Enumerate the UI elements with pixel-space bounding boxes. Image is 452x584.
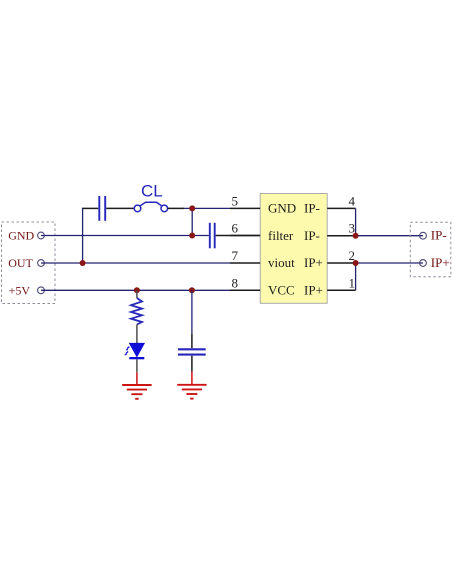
svg-text:7: 7 bbox=[232, 248, 239, 263]
pin circle IP- bbox=[420, 232, 427, 239]
label OUT bbox=[8, 256, 33, 270]
ground left bbox=[122, 372, 151, 399]
pin number 8 bbox=[232, 276, 239, 291]
svg-text:IP+: IP+ bbox=[304, 255, 323, 270]
label +5V bbox=[9, 283, 31, 297]
pin 3 stub bbox=[327, 235, 355, 237]
wire OUT row bbox=[41, 262, 230, 264]
wire GND row bbox=[41, 235, 192, 237]
svg-text:filter: filter bbox=[268, 228, 294, 243]
pin name IP- 2nd bbox=[304, 228, 320, 243]
junction IP- bbox=[353, 233, 359, 239]
svg-text:+5V: +5V bbox=[9, 283, 31, 297]
capacitor C2 filter series bbox=[192, 223, 260, 249]
pin number 7 bbox=[232, 248, 239, 263]
pin name IP+ bottom bbox=[304, 283, 323, 298]
svg-text:viout: viout bbox=[268, 255, 295, 270]
svg-text:IP+: IP+ bbox=[431, 255, 450, 270]
wire +5V junction down to C3 bbox=[191, 290, 193, 334]
svg-text:6: 6 bbox=[232, 221, 239, 236]
svg-text:IP-: IP- bbox=[304, 228, 320, 243]
pin circle +5V bbox=[38, 287, 45, 294]
svg-text:OUT: OUT bbox=[8, 256, 33, 270]
connector J1 left dashed box bbox=[2, 222, 56, 304]
capacitor C1 top series bbox=[83, 196, 134, 221]
junction filter row bbox=[189, 233, 195, 239]
pin number 2 bbox=[349, 248, 356, 263]
wire +5V row bbox=[41, 289, 232, 291]
pin number 6 bbox=[232, 221, 239, 236]
pin number 1 bbox=[349, 276, 356, 291]
wire riser OUT to top line bbox=[82, 208, 84, 263]
pin name GND bbox=[268, 201, 296, 216]
pin 7 stub bbox=[230, 262, 260, 264]
svg-text:CL: CL bbox=[141, 182, 163, 201]
wire pin4 corner down bbox=[355, 208, 357, 235]
svg-text:IP-: IP- bbox=[431, 228, 447, 243]
resistor R1 bbox=[131, 290, 142, 343]
connector J2 right dashed box bbox=[410, 222, 451, 276]
pin name VCC bbox=[268, 283, 295, 298]
pin number 3 bbox=[349, 221, 356, 236]
pin name viout bbox=[268, 255, 295, 270]
pin 1 stub bbox=[327, 289, 355, 291]
ground right bbox=[177, 372, 206, 399]
junction +5V row right bbox=[189, 287, 195, 293]
pin name IP- top bbox=[304, 201, 320, 216]
svg-text:IP+: IP+ bbox=[304, 283, 323, 298]
jumper CL bbox=[134, 202, 184, 211]
wire pin1 corner up bbox=[355, 263, 357, 290]
wire vertical junction to filter row bbox=[191, 208, 193, 235]
pin 6 stub bbox=[230, 235, 260, 237]
pin number 4 bbox=[349, 194, 356, 209]
label IP+ bbox=[431, 255, 450, 270]
pin number 5 bbox=[232, 194, 239, 209]
pin 5 stub bbox=[230, 207, 260, 209]
pin name filter bbox=[268, 228, 294, 243]
label GND bbox=[8, 229, 34, 243]
junction OUT row bbox=[80, 260, 86, 266]
IC U1 current-sensor body bbox=[260, 194, 327, 304]
LED D1 bbox=[124, 343, 144, 372]
svg-text:5: 5 bbox=[232, 194, 239, 209]
label IP- bbox=[431, 228, 447, 243]
pin circle GND bbox=[38, 232, 45, 239]
svg-text:GND: GND bbox=[268, 201, 296, 216]
pin circle OUT bbox=[38, 260, 45, 267]
svg-text:IP-: IP- bbox=[304, 201, 320, 216]
svg-text:GND: GND bbox=[8, 229, 34, 243]
pin circle IP+ bbox=[420, 260, 427, 267]
pin 8 stub bbox=[230, 289, 260, 291]
svg-text:8: 8 bbox=[232, 276, 239, 291]
junction +5V row left bbox=[134, 287, 140, 293]
wire top line to pin5 bbox=[183, 207, 230, 209]
wire IP- row to connector bbox=[356, 235, 423, 237]
pin 2 stub bbox=[327, 262, 355, 264]
pin name IP+ 3rd bbox=[304, 255, 323, 270]
svg-text:VCC: VCC bbox=[268, 283, 295, 298]
svg-text:4: 4 bbox=[349, 194, 356, 209]
capacitor C3 bottom bbox=[178, 334, 206, 372]
wire IP+ row to connector bbox=[356, 262, 423, 264]
pin 4 stub bbox=[327, 207, 355, 209]
junction top line bbox=[189, 205, 195, 211]
junction IP+ bbox=[353, 260, 359, 266]
svg-text:1: 1 bbox=[349, 276, 356, 291]
label CL bbox=[141, 182, 163, 201]
